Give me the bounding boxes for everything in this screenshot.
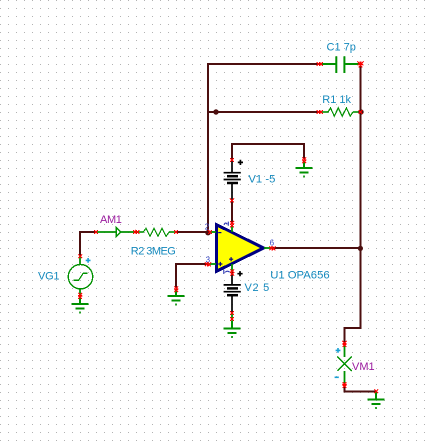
wire VG1 corner vertical [79, 231, 81, 256]
pin lead output [264, 247, 272, 249]
wire VM1 ground horizontal [344, 391, 377, 393]
capacitor C1 [320, 56, 360, 73]
svg-text:AM1: AM1 [100, 214, 122, 226]
op-amp U1 [208, 222, 272, 274]
plus supply mark [229, 257, 233, 261]
junction dot R1 right [358, 109, 363, 114]
terminal marks [317, 62, 321, 66]
ground for VM1 [368, 392, 385, 408]
generator VG1 [68, 256, 92, 296]
wire top horizontal feedback [207, 63, 320, 65]
svg-text:VM1: VM1 [352, 361, 375, 373]
plus mark V2 [237, 271, 242, 276]
wire jog vertical to VM1 [344, 327, 346, 344]
resistor R1 [320, 108, 360, 116]
glyph bottom supply [224, 270, 230, 274]
svg-text:R1 1k: R1 1k [322, 94, 351, 106]
wire V1 top horizontal [231, 143, 305, 145]
wire R1 horizontal [208, 111, 320, 113]
resistor R2 [136, 228, 176, 236]
pin lead pin3 [208, 263, 216, 265]
ground for VG1 [72, 297, 89, 313]
wire R2 to opamp junction [176, 231, 209, 233]
plus input mark [218, 262, 222, 266]
svg-text:VG1: VG1 [38, 270, 59, 282]
minus mark VM1 [335, 376, 339, 378]
wire right vertical feedback [360, 63, 362, 249]
pin lead V- top [231, 226, 233, 233]
pin lead pin2 [208, 231, 216, 233]
wire V2 to ground [231, 312, 233, 320]
wire V1 ground vertical [303, 143, 305, 159]
pin lead V+ bottom [231, 264, 233, 272]
ground for pin3 [168, 289, 185, 305]
junction dot pin2 node [205, 230, 210, 235]
svg-text:V2 5: V2 5 [245, 282, 270, 294]
minus input mark [218, 232, 221, 234]
wire left vertical feedback [207, 63, 209, 233]
plus mark VM1 [336, 348, 341, 353]
wire output right vertical down [360, 248, 362, 329]
svg-text:2: 2 [205, 222, 210, 231]
junction dot R1 left [213, 109, 218, 114]
plus mark V1 [238, 160, 243, 165]
wire VG1 corner horizontal [79, 231, 96, 233]
wire jog horizontal [344, 327, 361, 329]
svg-text:R2 3MEG: R2 3MEG [131, 246, 175, 258]
wire VM1 bottom vertical [344, 384, 346, 392]
voltmeter VM1 [337, 344, 351, 384]
svg-text:U1 OPA656: U1 OPA656 [270, 270, 329, 282]
wire pin3 horizontal [176, 263, 208, 265]
svg-text:C1 7p: C1 7p [327, 41, 356, 53]
glyph top supply [224, 222, 228, 226]
ground for V2 [224, 321, 241, 338]
wire output horizontal [272, 247, 360, 249]
battery V1 [224, 160, 241, 200]
svg-text:V1 -5: V1 -5 [248, 173, 275, 185]
ground for V1 [296, 161, 313, 177]
wire pin3 ground vertical [175, 263, 177, 288]
battery V2 [224, 272, 241, 312]
wire V1 bottom to opamp [231, 200, 233, 224]
ammeter AM1 [96, 228, 136, 237]
junction dot output node [358, 246, 363, 251]
plus mark VG1 [86, 258, 91, 263]
wire V1 top vertical [231, 143, 233, 160]
